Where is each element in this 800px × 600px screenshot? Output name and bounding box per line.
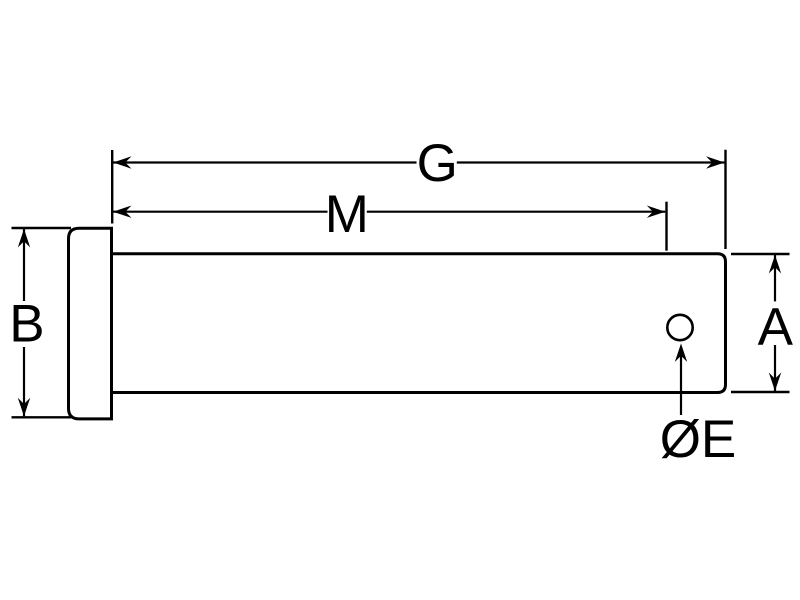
svg-text:A: A — [758, 297, 794, 356]
svg-text:G: G — [417, 134, 458, 193]
svg-text:M: M — [325, 185, 369, 244]
svg-text:B: B — [9, 295, 44, 354]
svg-text:ØE: ØE — [660, 410, 737, 469]
